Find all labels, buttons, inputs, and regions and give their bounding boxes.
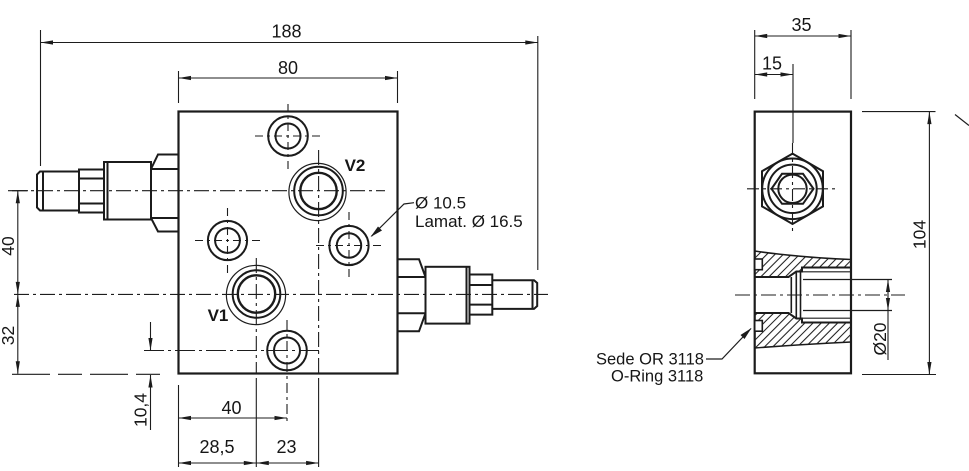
svg-text:40: 40	[0, 236, 18, 256]
left fitting body	[104, 162, 151, 220]
svg-text:104: 104	[910, 220, 930, 249]
svg-text:40: 40	[221, 398, 241, 418]
left fitting small hex	[79, 170, 104, 213]
right fitting big hex	[398, 259, 426, 331]
dimension 28,5	[179, 378, 257, 467]
dimension 40 (bottom)	[179, 385, 288, 467]
block front view outline	[179, 112, 398, 374]
block side view outline	[755, 112, 851, 374]
right fitting stem	[492, 280, 537, 309]
bottom mounting hole	[144, 320, 322, 423]
svg-text:35: 35	[791, 15, 811, 35]
port V2	[289, 150, 346, 373]
dimension 35	[755, 30, 851, 99]
section boundary curve bottom	[755, 342, 851, 348]
dimension 15	[755, 64, 793, 143]
svg-text:O-Ring 3118: O-Ring 3118	[611, 368, 703, 386]
dimension 32 (left, vertical)	[17, 294, 19, 373]
side view centerline	[735, 294, 905, 296]
thread root lines	[802, 272, 851, 318]
svg-text:Ø20: Ø20	[870, 322, 890, 355]
O-ring groove top	[755, 259, 763, 270]
port V1	[226, 258, 285, 374]
svg-text:28,5: 28,5	[199, 437, 234, 457]
right mounting hole (leadered)	[316, 212, 382, 279]
svg-text:80: 80	[278, 58, 298, 78]
svg-text:V1: V1	[208, 306, 229, 325]
dimension 188	[41, 30, 538, 270]
dimension Ø20	[887, 280, 889, 361]
left fitting stem	[37, 172, 79, 211]
top mounting hole	[255, 104, 321, 170]
svg-text:32: 32	[0, 326, 18, 345]
svg-text:188: 188	[271, 22, 301, 42]
svg-text:V2: V2	[345, 156, 366, 175]
bore Ø20 lines	[803, 280, 892, 311]
hex plug centerlines	[747, 188, 838, 190]
section hatch top	[755, 251, 851, 277]
block bottom extension line (left)	[12, 373, 167, 375]
svg-text:Ø 10.5: Ø 10.5	[415, 194, 466, 213]
dimension 23	[256, 378, 318, 467]
O-ring groove bottom	[755, 321, 763, 332]
svg-text:23: 23	[276, 437, 296, 457]
svg-text:15: 15	[762, 54, 782, 74]
leader Sede OR	[706, 329, 751, 360]
centerline through V2 and left fitting	[12, 190, 385, 192]
right fitting body	[426, 267, 470, 324]
right fitting small hex	[470, 275, 493, 315]
diagonal line top right	[955, 115, 969, 126]
section hatch bottom	[755, 313, 851, 348]
centerline through V1 and right fitting	[14, 293, 548, 295]
dimension 80	[179, 71, 398, 103]
mid-left mounting hole	[195, 208, 260, 273]
dimension 40 (left, vertical)	[8, 191, 28, 295]
hex plug head (end view)	[762, 154, 823, 224]
dimension 104	[862, 112, 936, 375]
leader Ø10.5	[372, 203, 415, 237]
svg-text:Lamat. Ø 16.5: Lamat. Ø 16.5	[415, 212, 523, 231]
cavity wall bottom	[755, 313, 851, 323]
cavity wall top	[755, 268, 851, 278]
dimension 10,4	[150, 322, 152, 430]
left fitting big hex	[151, 155, 179, 232]
plug end faces	[791, 272, 800, 319]
svg-text:Sede OR 3118: Sede OR 3118	[596, 351, 704, 369]
section boundary curve top	[755, 251, 851, 260]
svg-text:10,4: 10,4	[131, 393, 151, 427]
